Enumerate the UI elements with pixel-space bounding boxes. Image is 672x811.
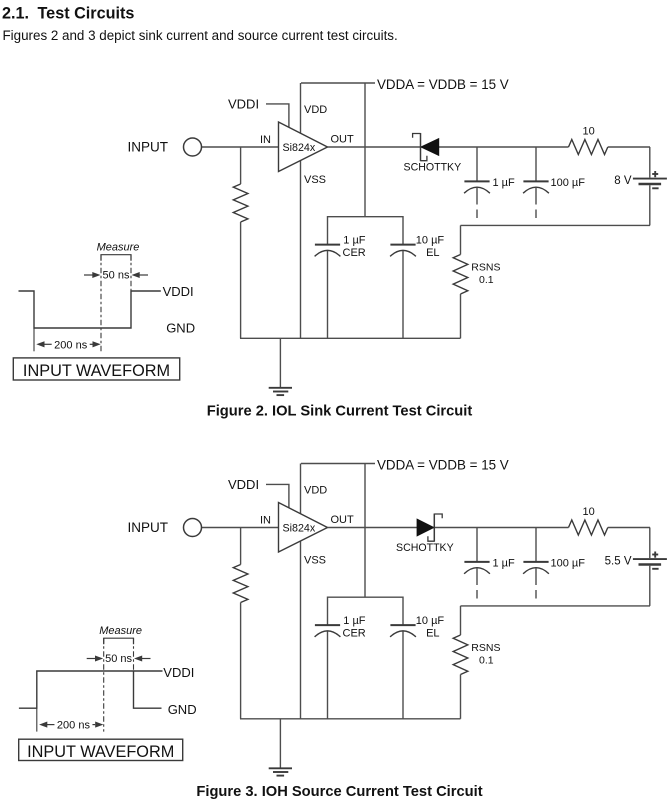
svg-text:2.1.: 2.1. xyxy=(2,5,29,23)
svg-text:INPUT: INPUT xyxy=(128,520,169,535)
svg-text:GND: GND xyxy=(168,702,197,717)
svg-text:Test Circuits: Test Circuits xyxy=(38,5,135,23)
svg-text:100 µF: 100 µF xyxy=(551,557,586,569)
svg-text:INPUT WAVEFORM: INPUT WAVEFORM xyxy=(23,362,170,380)
svg-text:GND: GND xyxy=(166,320,195,335)
svg-text:100 µF: 100 µF xyxy=(551,177,586,189)
svg-text:INPUT WAVEFORM: INPUT WAVEFORM xyxy=(27,743,174,761)
svg-text:Figure 3. IOH Source Current T: Figure 3. IOH Source Current Test Circui… xyxy=(196,784,482,800)
svg-text:EL: EL xyxy=(426,247,439,259)
svg-text:VSS: VSS xyxy=(304,555,326,567)
svg-text:Si824x: Si824x xyxy=(283,523,316,535)
svg-text:EL: EL xyxy=(426,627,439,639)
svg-text:Figure 2. IOL Sink Current Tes: Figure 2. IOL Sink Current Test Circuit xyxy=(207,404,473,420)
svg-text:50 ns: 50 ns xyxy=(103,269,130,281)
svg-text:CER: CER xyxy=(343,247,366,259)
svg-text:Measure: Measure xyxy=(99,625,142,637)
svg-text:CER: CER xyxy=(343,627,366,639)
svg-text:10: 10 xyxy=(583,126,595,138)
svg-text:SCHOTTKY: SCHOTTKY xyxy=(404,162,462,174)
svg-text:0.1: 0.1 xyxy=(479,274,494,286)
svg-text:1 µF: 1 µF xyxy=(343,615,366,627)
svg-text:200 ns: 200 ns xyxy=(54,339,88,351)
svg-text:VDDI: VDDI xyxy=(163,284,194,299)
svg-text:OUT: OUT xyxy=(331,134,355,146)
svg-text:VDD: VDD xyxy=(304,104,327,116)
svg-text:Figures 2 and 3 depict sink cu: Figures 2 and 3 depict sink current and … xyxy=(3,28,398,43)
svg-text:Si824x: Si824x xyxy=(283,142,316,154)
svg-text:10: 10 xyxy=(583,506,595,518)
svg-text:VDDI: VDDI xyxy=(228,97,259,112)
svg-text:5.5 V: 5.5 V xyxy=(605,556,632,568)
svg-text:VDDA = VDDB = 15 V: VDDA = VDDB = 15 V xyxy=(377,457,509,472)
svg-text:VDDA = VDDB = 15 V: VDDA = VDDB = 15 V xyxy=(377,77,509,92)
svg-text:VSS: VSS xyxy=(304,174,326,186)
svg-text:8 V: 8 V xyxy=(614,175,632,187)
svg-text:50 ns: 50 ns xyxy=(105,653,132,665)
svg-text:INPUT: INPUT xyxy=(128,140,169,155)
svg-text:VDD: VDD xyxy=(304,485,327,497)
svg-text:200 ns: 200 ns xyxy=(57,720,91,732)
svg-text:OUT: OUT xyxy=(331,514,355,526)
svg-text:1 µF: 1 µF xyxy=(343,235,366,247)
svg-text:10 µF: 10 µF xyxy=(416,615,445,627)
svg-text:IN: IN xyxy=(260,134,271,146)
svg-text:0.1: 0.1 xyxy=(479,654,494,666)
svg-text:RSNS: RSNS xyxy=(471,642,500,654)
svg-text:VDDI: VDDI xyxy=(163,665,194,680)
svg-text:SCHOTTKY: SCHOTTKY xyxy=(396,542,454,554)
svg-text:RSNS: RSNS xyxy=(471,262,500,274)
svg-text:IN: IN xyxy=(260,515,271,527)
svg-text:10 µF: 10 µF xyxy=(416,235,445,247)
svg-text:Measure: Measure xyxy=(97,242,140,254)
svg-text:VDDI: VDDI xyxy=(228,477,259,492)
svg-text:1 µF: 1 µF xyxy=(493,557,516,569)
svg-text:1 µF: 1 µF xyxy=(493,177,516,189)
